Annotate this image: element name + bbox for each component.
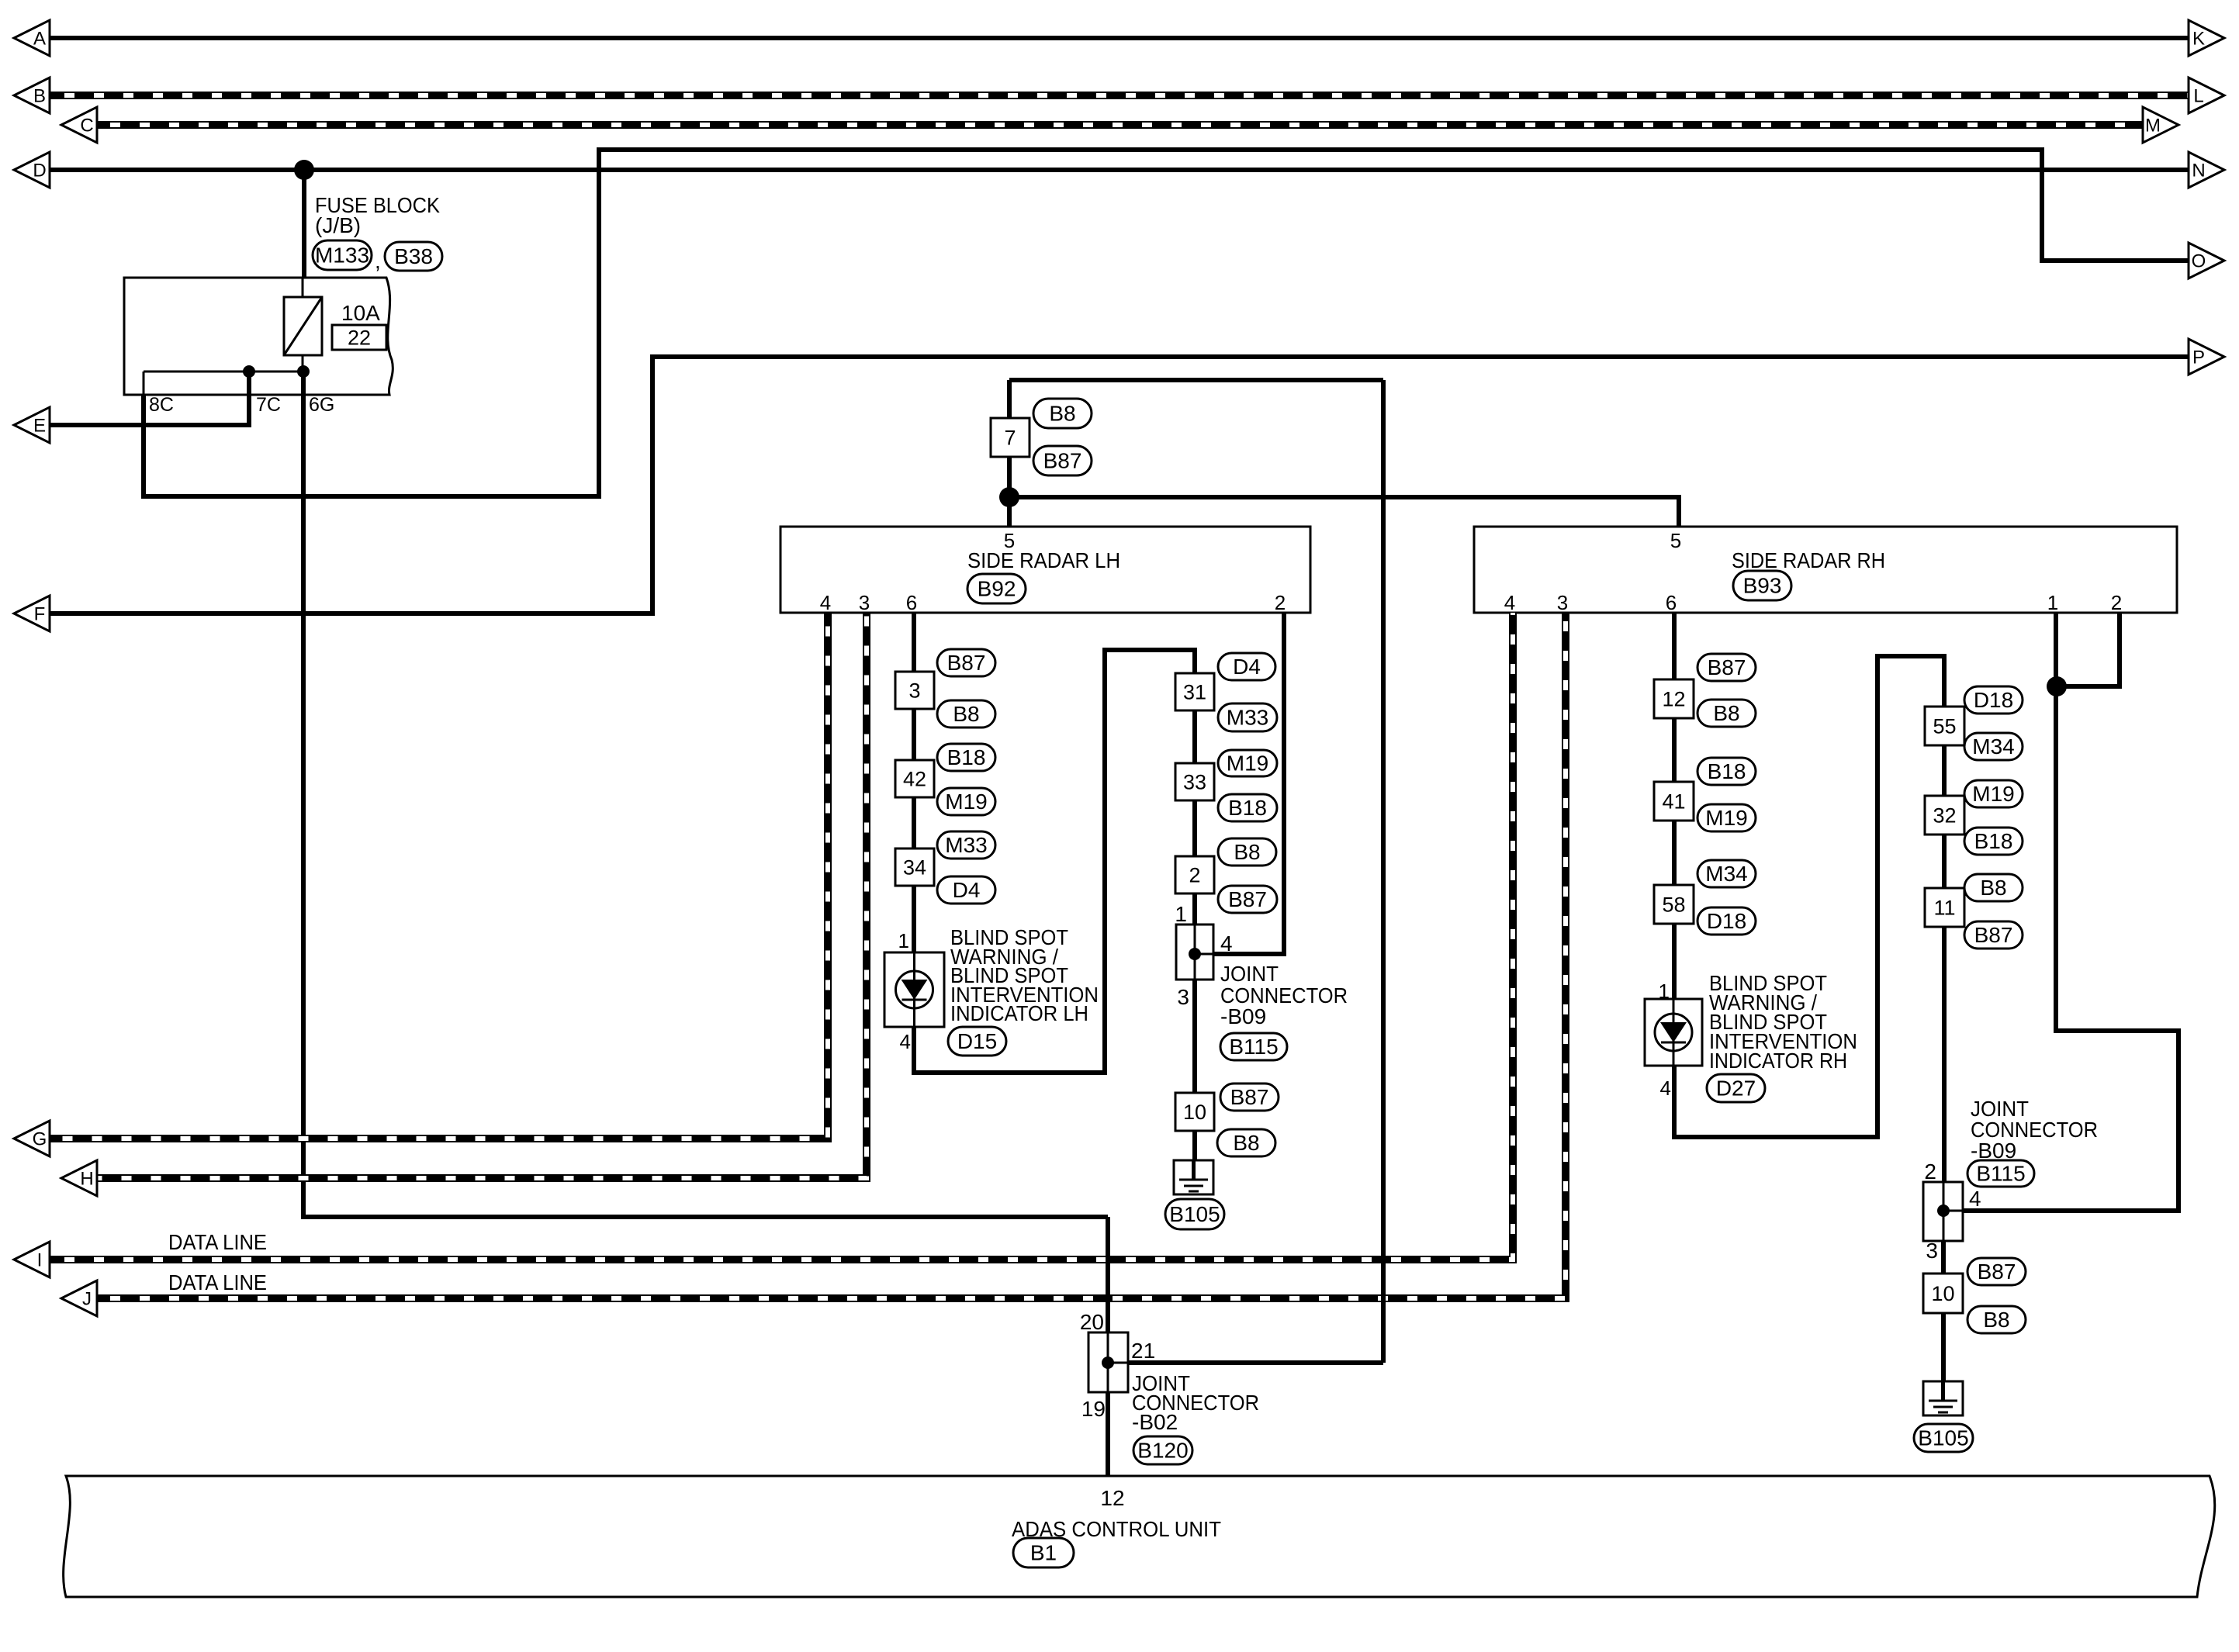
svg-text:3: 3 [1557, 591, 1568, 614]
connector tag B18 [1964, 828, 2023, 855]
connector tag B8 [1218, 838, 1276, 866]
svg-text:M33: M33 [1227, 706, 1268, 730]
svg-text:D18: D18 [1974, 688, 2013, 712]
ground B105 LH [1174, 1160, 1213, 1194]
svg-text:B92: B92 [978, 577, 1016, 601]
svg-text:11: 11 [1933, 897, 1955, 920]
connector tag D18 [1697, 907, 1756, 935]
svg-text:B8: B8 [1233, 1131, 1259, 1155]
svg-text:B1: B1 [1030, 1541, 1057, 1565]
wire bracket from grommet 7 to joint connector B02 pin 21 riser [1009, 378, 1383, 382]
connector tag B8 [1967, 1306, 2026, 1333]
svg-text:-B09: -B09 [1971, 1139, 2016, 1163]
svg-text:A: A [33, 29, 46, 50]
connector arrow D [14, 152, 50, 188]
svg-text:2: 2 [1275, 591, 1286, 614]
svg-text:3: 3 [859, 591, 870, 614]
connector tag B8 [1697, 700, 1756, 727]
connector arrow F [14, 596, 50, 631]
svg-text:L: L [2193, 86, 2203, 107]
connector tag B87 [1218, 886, 1277, 913]
connector tag B87 [937, 649, 995, 676]
svg-text:B87: B87 [1043, 449, 1082, 473]
svg-text:3: 3 [1177, 985, 1189, 1009]
svg-text:B8: B8 [1983, 1308, 2009, 1332]
wire bus B-L dashed shield line [49, 92, 2189, 99]
svg-text:B93: B93 [1743, 574, 1782, 598]
wire to SIDE RADAR LH pin 5 [1007, 497, 1012, 527]
svg-text:2: 2 [1189, 864, 1200, 887]
node junction radar supply split [999, 487, 1019, 507]
wire fuse block internal bus [144, 371, 303, 373]
svg-text:B87: B87 [1708, 655, 1746, 679]
wire SIDE RADAR LH pin 6 ground chain [912, 613, 916, 952]
node junction SIDE RADAR RH pins 1-2 [2047, 676, 2067, 696]
svg-text:B8: B8 [1713, 701, 1739, 725]
grommet 2 [1175, 856, 1214, 893]
svg-text:B18: B18 [947, 745, 986, 769]
connector tag M19 [1697, 804, 1756, 831]
svg-text:B115: B115 [1229, 1035, 1278, 1059]
connector arrow P [2189, 339, 2224, 375]
svg-text:12: 12 [1100, 1486, 1124, 1510]
svg-text:1: 1 [898, 929, 909, 952]
SIDE RADAR LH connector box B92 [780, 527, 1310, 613]
wire joint connector B09 pin 3 to ground B105 LH [1192, 980, 1197, 1160]
svg-text:M: M [2145, 116, 2161, 137]
connector arrow N [2189, 152, 2224, 188]
svg-text:(J/B): (J/B) [315, 213, 361, 237]
svg-text:58: 58 [1662, 893, 1685, 917]
grommet 11 [1925, 888, 1964, 927]
svg-text:4: 4 [900, 1030, 911, 1053]
svg-text:B18: B18 [1228, 796, 1267, 820]
connector tag B38 [385, 242, 442, 271]
wire J data line to SIDE RADAR RH pin 3 dashed [95, 613, 1566, 1298]
svg-text:55: 55 [1933, 715, 1956, 738]
svg-text:INDICATOR LH: INDICATOR LH [950, 1001, 1088, 1025]
svg-text:M34: M34 [1705, 862, 1747, 886]
connector arrow C [61, 107, 97, 143]
svg-text:B8: B8 [1980, 876, 2006, 900]
connector tag D4 [1218, 653, 1275, 680]
connector tag B87 [1964, 921, 2023, 949]
svg-text:F: F [34, 604, 46, 625]
wire fuse leads [302, 278, 304, 372]
grommet 7 [991, 418, 1030, 457]
wire bus A-K battery line [49, 36, 2189, 40]
svg-text:2: 2 [2111, 591, 2122, 614]
connector tag M34 [1697, 860, 1756, 887]
grommet 42 [895, 760, 934, 797]
svg-text:B38: B38 [394, 244, 433, 268]
svg-text:5: 5 [1670, 529, 1681, 552]
grommet 3 [895, 672, 934, 709]
svg-text:6G: 6G [309, 394, 334, 416]
svg-text:4: 4 [1220, 931, 1233, 956]
label fuse number 22 [332, 325, 386, 350]
svg-text:M19: M19 [1705, 806, 1747, 830]
connector tag B18 [1697, 758, 1756, 785]
connector tag B8 [1964, 874, 2023, 901]
svg-text:M19: M19 [945, 790, 987, 814]
svg-text:B105: B105 [1918, 1426, 1968, 1450]
svg-text:20: 20 [1080, 1310, 1104, 1334]
connector tag B8 [1033, 399, 1092, 428]
svg-text:D18: D18 [1707, 909, 1746, 933]
wire F to P [49, 357, 2189, 613]
svg-text:JOINT: JOINT [1220, 962, 1279, 986]
connector tag B18 [1218, 794, 1277, 821]
wire indicator D15 pin 4 to joint connector B09 pin 1 [914, 650, 1195, 1073]
svg-text:B87: B87 [1974, 923, 2013, 947]
connector tag M19 [1964, 780, 2023, 807]
connector tag B92 [967, 574, 1026, 603]
connector tag M19 [937, 788, 995, 815]
svg-text:M34: M34 [1972, 734, 2014, 759]
connector tag B115 [1220, 1033, 1287, 1060]
wire fuse block internal 8C drop [143, 372, 145, 395]
svg-text:B18: B18 [1708, 759, 1746, 783]
grommet 55 [1925, 707, 1964, 745]
svg-text:O: O [2192, 251, 2206, 272]
svg-text:D4: D4 [1233, 655, 1261, 679]
connector arrow E [14, 407, 50, 443]
svg-text:D15: D15 [957, 1029, 997, 1053]
connector arrow G [14, 1121, 50, 1156]
svg-text:DATA LINE: DATA LINE [168, 1230, 267, 1254]
lamp blind spot warning indicator LH D15 [884, 952, 944, 1027]
svg-text:B87: B87 [1228, 887, 1267, 911]
svg-text:7C: 7C [256, 394, 281, 416]
ground B105 RH [1923, 1381, 1963, 1415]
svg-text:32: 32 [1933, 804, 1956, 828]
connector arrow K [2189, 20, 2224, 56]
wire G to SIDE RADAR LH pin 4 dashed [49, 613, 828, 1139]
connector tag M133 [313, 240, 372, 270]
wire to joint connector B02 pin 20 [1106, 1217, 1110, 1332]
connector tag D15 [948, 1027, 1006, 1056]
lamp blind spot warning indicator RH D27 [1645, 999, 1702, 1066]
svg-text:B87: B87 [947, 651, 986, 675]
svg-text:B115: B115 [1976, 1162, 2025, 1186]
svg-text:B105: B105 [1169, 1202, 1220, 1226]
svg-text:M33: M33 [945, 833, 987, 857]
node junction on bus D [294, 160, 314, 180]
fuse 10A 22 symbol [284, 297, 322, 355]
svg-text:19: 19 [1081, 1397, 1106, 1421]
svg-text:DATA LINE: DATA LINE [168, 1270, 267, 1294]
svg-text:I: I [37, 1250, 43, 1271]
grommet 12 [1654, 679, 1694, 718]
wire SIDE RADAR LH pin 2 to joint connector B09 pin 4 [1214, 613, 1284, 954]
svg-text:1: 1 [1175, 902, 1187, 926]
wire joint connector B02 pin 19 to ADAS pin 12 [1106, 1392, 1110, 1476]
svg-text:SIDE RADAR LH: SIDE RADAR LH [967, 548, 1120, 572]
svg-text:33: 33 [1183, 771, 1206, 794]
grommet 58 [1654, 885, 1694, 924]
connector tag M19 [1218, 750, 1277, 776]
svg-text:M19: M19 [1227, 752, 1268, 776]
wire joint connector B09 pin 3 to ground B105 RH [1941, 1241, 1946, 1381]
wire D junction down to fuse block [302, 170, 306, 278]
node fuse internal junction 6G [297, 365, 310, 378]
connector arrow L [2189, 78, 2224, 113]
svg-text:D4: D4 [953, 878, 981, 902]
wire I data line to SIDE RADAR RH pin 4 dashed [49, 613, 1513, 1260]
svg-text:4: 4 [1504, 591, 1515, 614]
node fuse internal junction 7C [243, 365, 255, 378]
svg-text:,: , [375, 249, 381, 273]
joint connector -B02 B120 [1088, 1332, 1128, 1392]
connector tag B93 [1733, 571, 1791, 600]
connector tag B18 [937, 744, 995, 771]
connector tag B8 [937, 700, 995, 728]
svg-text:B8: B8 [1234, 840, 1260, 864]
connector tag B1 [1013, 1538, 1074, 1567]
svg-text:E: E [33, 416, 46, 437]
grommet 41 [1654, 782, 1694, 821]
svg-text:B87: B87 [1230, 1085, 1269, 1109]
svg-text:M19: M19 [1972, 782, 2014, 806]
wire fuse 8C output to O [144, 150, 2189, 496]
svg-text:B8: B8 [1049, 402, 1075, 426]
svg-text:10: 10 [1931, 1282, 1954, 1305]
wire joint connector B02 pin 21 [1126, 1360, 1383, 1365]
svg-text:H: H [80, 1169, 93, 1190]
svg-text:-B02: -B02 [1132, 1410, 1178, 1434]
connector tag B87 [1220, 1083, 1279, 1111]
connector tag M33 [1218, 703, 1277, 731]
svg-text:J: J [82, 1289, 92, 1310]
svg-text:M133: M133 [315, 244, 369, 268]
svg-text:K: K [2192, 29, 2205, 50]
wire fuse 6G output down and right toward joint connector B02 [303, 372, 1108, 1217]
wire SIDE RADAR RH pin 2 to pin 1 junction [2057, 613, 2120, 686]
wire indicator D27 pin 4 to joint connector B09 pin 2 [1674, 656, 1944, 1182]
svg-text:12: 12 [1662, 688, 1685, 711]
grommet 34 [895, 848, 934, 886]
connector tag B120 [1133, 1436, 1192, 1464]
connector tag B87 [1033, 446, 1092, 475]
svg-text:N: N [2192, 161, 2205, 181]
svg-text:8C: 8C [149, 394, 174, 416]
connector arrow I [14, 1242, 50, 1277]
connector arrow A [14, 20, 50, 56]
svg-text:10A: 10A [341, 301, 380, 325]
svg-text:22: 22 [348, 327, 371, 350]
svg-text:B87: B87 [1978, 1260, 2016, 1284]
connector tag M34 [1964, 733, 2023, 760]
wire H to SIDE RADAR LH pin 3 dashed [95, 613, 867, 1178]
svg-text:D: D [33, 161, 46, 181]
connector arrow M [2143, 107, 2178, 143]
svg-text:4: 4 [1660, 1077, 1671, 1100]
svg-text:31: 31 [1183, 681, 1206, 704]
svg-text:B120: B120 [1137, 1439, 1188, 1463]
svg-text:B18: B18 [1974, 829, 2013, 853]
connector arrow B [14, 78, 50, 113]
connector arrow J [61, 1280, 97, 1316]
svg-text:10: 10 [1183, 1101, 1206, 1124]
connector arrow O [2189, 243, 2224, 278]
svg-text:3: 3 [908, 679, 920, 703]
svg-text:21: 21 [1131, 1339, 1155, 1363]
connector arrow H [61, 1160, 97, 1196]
grommet 33 [1175, 763, 1214, 800]
wire to SIDE RADAR RH pin 5 [1009, 497, 1679, 527]
grommet 32 [1925, 796, 1964, 835]
svg-text:P: P [2192, 347, 2205, 368]
svg-text:C: C [80, 116, 93, 137]
SIDE RADAR RH connector box B93 [1474, 527, 2177, 613]
fuse block (J/B) outline box M133,B38 [124, 278, 393, 395]
joint connector -B09 B115 (LH) [1176, 924, 1213, 980]
connector tag D4 [937, 876, 995, 904]
connector tag D18 [1964, 686, 2023, 714]
svg-text:41: 41 [1662, 790, 1685, 814]
svg-text:2: 2 [1924, 1160, 1936, 1184]
wire through grommet 7 [1007, 380, 1012, 497]
connector tag B115 [1967, 1160, 2034, 1187]
svg-text:4: 4 [820, 591, 831, 614]
svg-text:34: 34 [903, 856, 926, 880]
svg-text:7: 7 [1004, 427, 1016, 450]
connector tag B105 [1914, 1424, 1973, 1452]
svg-text:D27: D27 [1716, 1077, 1756, 1101]
svg-text:1: 1 [2047, 591, 2058, 614]
joint connector -B09 B115 (RH) [1923, 1182, 1963, 1241]
svg-text:6: 6 [1666, 591, 1677, 614]
svg-text:4: 4 [1969, 1187, 1981, 1211]
connector tag B105 [1165, 1199, 1224, 1229]
grommet 10 LH [1175, 1093, 1214, 1131]
wire bus D-N power line [49, 168, 2189, 172]
connector tag B8 [1217, 1129, 1275, 1156]
svg-text:-B09: -B09 [1220, 1004, 1266, 1028]
wire fuse 7C output to E [49, 372, 249, 425]
wire SIDE RADAR RH pin 1 to joint connector B09 pin 4 [1963, 613, 2178, 1211]
connector tag M33 [937, 831, 995, 859]
grommet 31 [1175, 673, 1214, 710]
svg-text:INDICATOR RH: INDICATOR RH [1709, 1049, 1847, 1073]
ADAS CONTROL UNIT outline box B1 [64, 1476, 2215, 1597]
svg-text:SIDE RADAR RH: SIDE RADAR RH [1732, 548, 1885, 572]
wire riser to joint connector B02 pin 21 [1381, 380, 1386, 1363]
svg-text:42: 42 [903, 768, 926, 791]
svg-text:G: G [33, 1129, 47, 1150]
svg-text:3: 3 [1926, 1239, 1938, 1263]
connector tag B87 [1697, 654, 1756, 681]
svg-text:B: B [33, 86, 46, 107]
grommet 10 RH [1923, 1274, 1963, 1313]
wire SIDE RADAR RH pin 6 chain [1672, 613, 1677, 999]
connector tag D27 [1707, 1074, 1765, 1102]
connector tag B87 [1967, 1258, 2026, 1285]
svg-text:6: 6 [906, 591, 917, 614]
wire bus C-M dashed shield line [95, 121, 2143, 129]
svg-text:B8: B8 [953, 702, 979, 726]
